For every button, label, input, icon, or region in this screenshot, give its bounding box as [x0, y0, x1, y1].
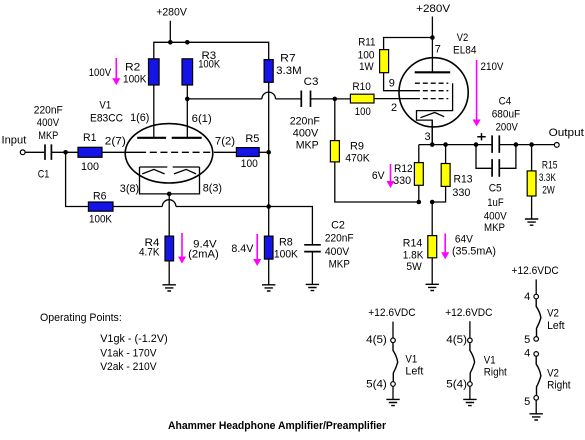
svg-text:1(6): 1(6)	[130, 112, 149, 124]
wire C5 bypass right	[499, 145, 516, 169]
svg-text:R5: R5	[245, 133, 259, 145]
heater terminal (V1 Left seg1 top)	[391, 338, 396, 343]
svg-text:4: 4	[524, 291, 530, 303]
svg-text:MKP: MKP	[296, 139, 319, 151]
wire output node line left part	[419, 144, 492, 146]
svg-text:Input: Input	[2, 135, 27, 147]
node junction dot R13 top	[443, 142, 448, 147]
svg-text:400V: 400V	[325, 246, 350, 258]
svg-text:(35.5mA): (35.5mA)	[452, 245, 496, 257]
svg-text:100: 100	[81, 161, 99, 173]
node junction dot R3 top	[185, 40, 190, 45]
node junction dot +280V feed	[168, 40, 173, 45]
capacitor C4	[492, 135, 499, 153]
svg-text:400V: 400V	[37, 117, 60, 129]
svg-text:100V: 100V	[89, 67, 112, 79]
resistor R7	[264, 60, 273, 83]
svg-text:330: 330	[393, 175, 411, 187]
svg-text:MKP: MKP	[38, 130, 58, 142]
svg-text:R7: R7	[280, 52, 296, 64]
capacitor C2	[304, 245, 321, 252]
node junction dot C4/C5 right	[514, 142, 519, 147]
wire R6 right with hop to node	[113, 206, 269, 208]
wire R9 from C3 node down	[334, 99, 336, 141]
svg-text:C1: C1	[38, 168, 50, 180]
resistor R2	[149, 59, 160, 85]
wire R13 bottom to node	[432, 186, 445, 202]
svg-text:2: 2	[391, 102, 397, 114]
ground R15	[525, 219, 538, 225]
wire hop over R7 branch	[262, 92, 276, 99]
node junction dot C4/C5 left	[474, 142, 479, 147]
svg-text:R15: R15	[542, 159, 558, 171]
wire R9 bottom to R12 node	[335, 162, 419, 202]
svg-text:220nF: 220nF	[290, 116, 320, 128]
node junction dot R14 top	[430, 200, 435, 205]
svg-text:2W: 2W	[542, 185, 555, 197]
arrow 8.4V	[253, 234, 261, 266]
wire R5 to node	[259, 151, 269, 153]
arrow 100V	[112, 58, 120, 85]
heater filament (V1 Right seg1)	[470, 343, 475, 382]
heater terminal (V2 Left/Right seg1 top)	[534, 294, 539, 299]
wire R10 to V2 grid pin 2	[374, 98, 415, 100]
resistor R15	[527, 171, 536, 196]
arrow 6V	[387, 164, 395, 188]
svg-text:4: 4	[524, 347, 530, 359]
arrow 210V	[473, 60, 481, 127]
svg-text:100K: 100K	[198, 59, 221, 71]
svg-text:V1gk - (-1.2V): V1gk - (-1.2V)	[100, 333, 168, 345]
svg-text:R13: R13	[454, 173, 473, 185]
ground C2	[306, 284, 319, 290]
node junction dot R15 top	[529, 142, 534, 147]
svg-text:MKP: MKP	[484, 222, 505, 234]
svg-text:1uF: 1uF	[487, 197, 504, 209]
heater terminal (V2 Left/Right seg1 bottom)	[534, 337, 539, 342]
wire +280V feed to V2 plate	[431, 17, 433, 73]
wire heater to ground (V2 Left/Right)	[535, 400, 537, 414]
svg-text:R6: R6	[93, 190, 107, 202]
resistor R8	[264, 236, 273, 259]
wire cathode to R4	[168, 194, 170, 236]
capacitor C3	[301, 91, 310, 108]
svg-text:C4: C4	[499, 96, 512, 108]
wire top rail with corners to R2 and R7	[154, 42, 269, 59]
node junction dot plate line	[185, 97, 190, 102]
wire C3 to R10 junction	[311, 98, 351, 100]
heater filament (V2 Left/Right seg2)	[536, 356, 541, 395]
ground R8	[262, 285, 275, 291]
svg-text:400V: 400V	[293, 128, 319, 140]
wire plate line to C3 with hop	[187, 98, 301, 100]
resistor R5	[236, 148, 259, 157]
svg-text:MKP: MKP	[329, 258, 350, 270]
svg-text:R9: R9	[350, 141, 364, 153]
svg-text:V1: V1	[484, 354, 496, 366]
svg-text:210V: 210V	[481, 61, 505, 73]
wire heater feed (V1 Left)	[392, 322, 394, 338]
V1 cathode chevrons	[142, 169, 196, 174]
heater terminal (V2 Left/Right seg2 bottom)	[534, 396, 539, 401]
svg-text:5: 5	[524, 334, 530, 346]
svg-text:4.7K: 4.7K	[139, 247, 160, 259]
svg-text:V2: V2	[457, 32, 469, 44]
resistor R3	[182, 59, 193, 85]
svg-text:470K: 470K	[345, 152, 370, 164]
svg-text:5(4): 5(4)	[366, 379, 387, 391]
svg-text:100K: 100K	[274, 249, 299, 261]
svg-text:8(3): 8(3)	[203, 182, 222, 194]
wire C2 to ground	[311, 252, 313, 284]
resistor R11	[380, 50, 389, 73]
svg-text:200V: 200V	[496, 122, 519, 134]
svg-text:4(5): 4(5)	[366, 334, 387, 346]
svg-text:5: 5	[524, 396, 530, 408]
wire R3 bottom to V1 plate pin 6(1)	[186, 85, 188, 138]
svg-text:4(5): 4(5)	[446, 334, 467, 346]
arrow 9.4V	[178, 233, 186, 264]
svg-text:V2ak - 210V: V2ak - 210V	[100, 361, 157, 373]
svg-text:6V: 6V	[372, 170, 385, 182]
ground heater (V2 Left/Right)	[530, 414, 543, 420]
ground R14	[426, 284, 439, 290]
V1 cathode box	[140, 167, 200, 194]
ground heater (V1 Right)	[463, 399, 476, 405]
heater filament (V1 Left seg1)	[393, 343, 398, 382]
wire R7 bottom through to R8 node	[268, 82, 270, 236]
heater terminal (V1 Right seg1 top)	[468, 338, 473, 343]
wire R1 to V1 grid	[102, 151, 139, 153]
svg-text:2(7): 2(7)	[105, 136, 126, 148]
svg-text:100K: 100K	[89, 213, 113, 225]
svg-text:7: 7	[435, 43, 441, 55]
wire R8 to ground	[268, 259, 270, 285]
output terminal	[554, 143, 559, 148]
svg-text:400V: 400V	[484, 210, 508, 222]
svg-text:3.3K: 3.3K	[539, 172, 556, 184]
svg-text:R14: R14	[403, 238, 423, 250]
V2 grid g3 dashed	[415, 82, 448, 84]
resistor R10	[350, 94, 374, 103]
svg-text:C2: C2	[331, 220, 345, 232]
svg-text:Left: Left	[547, 320, 565, 332]
capacitor C1	[45, 144, 51, 160]
wire V2 pin3 down to output node	[431, 120, 433, 145]
svg-text:Operating Points:: Operating Points:	[40, 312, 122, 324]
svg-text:Output: Output	[549, 127, 584, 139]
svg-text:+280V: +280V	[156, 7, 187, 19]
ground R4	[163, 285, 176, 291]
svg-text:V1: V1	[405, 353, 417, 365]
wire input to C1	[25, 151, 44, 153]
V2 plate bar	[415, 71, 451, 73]
svg-text:+12.6VDC: +12.6VDC	[368, 307, 415, 319]
svg-text:Ahammer Headphone Amplifier/Pr: Ahammer Headphone Amplifier/Preamplifier	[168, 420, 387, 432]
svg-text:9: 9	[389, 77, 395, 89]
V2 cathode chevron	[420, 113, 444, 118]
wire R14 to ground	[431, 258, 433, 285]
svg-text:3.3M: 3.3M	[276, 65, 302, 77]
svg-text:V2: V2	[547, 367, 559, 379]
polarity plus sign of C4	[477, 133, 485, 140]
wire R12 top	[418, 145, 420, 163]
wire node to C2	[269, 207, 313, 245]
wire R11 to V2 screen grid pin 9	[384, 73, 415, 91]
svg-text:R10: R10	[352, 81, 371, 93]
svg-text:1.8K: 1.8K	[403, 250, 424, 262]
wire R14 top	[431, 202, 433, 236]
svg-text:7(2): 7(2)	[215, 136, 235, 148]
node junction dot R6 right	[266, 204, 271, 209]
pentode V2 envelope	[399, 58, 468, 127]
node junction dot R12 bottom	[417, 200, 422, 205]
resistor R12	[414, 163, 423, 186]
wire hop over cathode branch	[162, 200, 176, 207]
svg-text:V2: V2	[547, 308, 559, 320]
V2 grid g2 dashed	[415, 90, 448, 92]
V2 grid g1 dashed	[415, 98, 448, 100]
svg-text:100: 100	[358, 50, 375, 62]
resistor R14	[428, 236, 437, 258]
V1 plate bars	[137, 137, 202, 139]
heater terminal (V1 Right seg1 bottom)	[468, 382, 473, 387]
node junction dot pin3/output line	[430, 142, 435, 147]
resistor R4	[165, 236, 174, 261]
svg-text:3(8): 3(8)	[120, 183, 139, 195]
svg-text:R12: R12	[394, 163, 413, 175]
svg-text:C5: C5	[489, 182, 502, 194]
svg-text:E83CC: E83CC	[90, 112, 123, 124]
heater filament (V2 Left/Right seg1)	[536, 299, 541, 337]
V2 cathode structure	[417, 83, 453, 145]
svg-text:5W: 5W	[406, 261, 422, 273]
svg-text:R8: R8	[279, 236, 293, 248]
svg-text:V1: V1	[99, 100, 111, 112]
svg-text:Right: Right	[484, 366, 507, 378]
svg-text:Right: Right	[547, 379, 571, 391]
svg-text:1W: 1W	[359, 61, 374, 73]
svg-text:R11: R11	[358, 37, 375, 49]
capacitor C5	[492, 159, 499, 177]
wire R2 bottom to V1 plate pin 1(6)	[153, 85, 155, 138]
svg-text:EL84: EL84	[453, 44, 477, 56]
svg-text:C3: C3	[304, 76, 319, 88]
wire to R11	[384, 38, 433, 50]
triode V1 envelope	[125, 124, 213, 183]
svg-text:+12.6VDC: +12.6VDC	[445, 307, 492, 319]
svg-text:R1: R1	[83, 132, 97, 144]
resistor R1	[78, 147, 102, 157]
svg-text:100: 100	[241, 158, 258, 170]
svg-text:R2: R2	[125, 61, 140, 73]
arrow 64V	[441, 234, 449, 260]
wire R4 to ground	[168, 261, 170, 285]
wire output node line right part	[499, 144, 554, 146]
wire R13 top	[445, 145, 447, 164]
V1 grid dashed line	[139, 151, 214, 153]
svg-text:V1ak - 170V: V1ak - 170V	[100, 347, 157, 359]
resistor R9	[330, 141, 339, 162]
wire heater feed (V1 Right)	[469, 321, 471, 338]
wire R15 to ground	[531, 196, 533, 219]
node junction dot cathode	[167, 192, 172, 197]
wire heater to ground (V1 Right)	[469, 386, 471, 399]
svg-text:330: 330	[452, 187, 470, 199]
svg-text:680uF: 680uF	[492, 109, 521, 121]
svg-text:100K: 100K	[123, 73, 147, 85]
svg-text:(2mA): (2mA)	[188, 249, 219, 261]
svg-text:3: 3	[425, 131, 431, 143]
wire V1 grid right to R5	[214, 151, 236, 153]
node junction dot input/R6	[63, 150, 68, 155]
ground heater (V1 Left)	[386, 399, 399, 405]
svg-text:5(4): 5(4)	[446, 379, 467, 391]
wire C1 to R1	[51, 151, 78, 153]
heater terminal (V2 Left/Right seg2 top)	[534, 352, 539, 357]
wire heater feed (V2 Left/Right)	[535, 279, 537, 294]
svg-text:220nF: 220nF	[325, 233, 354, 245]
heater terminal (V1 Left seg1 bottom)	[391, 382, 396, 387]
wire +280V feed	[169, 21, 171, 43]
node junction dot V2 feed	[430, 35, 435, 40]
svg-text:6(1): 6(1)	[192, 113, 212, 125]
wire input node down to R6	[66, 152, 89, 206]
wire heater to ground (V1 Left)	[392, 386, 394, 399]
wire R12 bottom	[418, 185, 420, 202]
resistor R6	[88, 202, 113, 211]
wire R15 top	[531, 145, 533, 171]
svg-text:+280V: +280V	[416, 3, 451, 15]
svg-text:100: 100	[355, 106, 371, 118]
svg-text:64V: 64V	[455, 234, 474, 246]
svg-text:+12.6VDC: +12.6VDC	[512, 265, 559, 277]
input terminal	[20, 150, 25, 155]
node junction dot R5 right	[266, 150, 271, 155]
svg-text:220nF: 220nF	[34, 105, 63, 117]
node junction dot C3/R9/R10	[333, 97, 338, 102]
svg-text:8.4V: 8.4V	[231, 243, 254, 255]
wire C5 bypass left	[476, 145, 492, 169]
svg-text:Left: Left	[405, 365, 423, 377]
resistor R13	[441, 164, 450, 187]
